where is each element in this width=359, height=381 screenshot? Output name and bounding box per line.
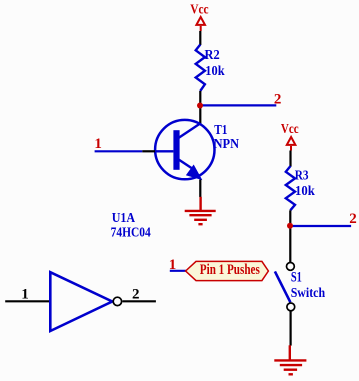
node junction right — [287, 223, 293, 229]
svg-text:1: 1 — [94, 136, 102, 152]
svg-text:Pin 1 Pushes: Pin 1 Pushes — [200, 262, 260, 278]
transistor T1 — [142, 120, 214, 179]
wire net 1 (transistor base) — [95, 150, 143, 152]
ground under transistor — [185, 197, 216, 224]
ground under switch — [274, 345, 306, 374]
svg-text:T1: T1 — [214, 123, 227, 138]
power Vcc left symbol — [196, 17, 205, 31]
svg-text:2: 2 — [132, 286, 140, 302]
svg-text:2: 2 — [349, 211, 357, 227]
svg-text:1: 1 — [169, 257, 177, 273]
svg-text:10k: 10k — [205, 64, 224, 79]
svg-text:1: 1 — [21, 286, 29, 302]
inverter U1A (74HC04 gate) — [50, 272, 121, 331]
svg-text:Switch: Switch — [291, 286, 326, 301]
svg-text:2: 2 — [274, 91, 282, 107]
wire Vcc to R2 — [199, 31, 201, 45]
svg-text:74HC04: 74HC04 — [111, 226, 151, 241]
port Pin 1 Pushes — [186, 261, 269, 280]
inverter U1A input wire — [5, 300, 50, 302]
wire Vcc to R3 — [289, 151, 291, 167]
svg-text:Vcc: Vcc — [281, 122, 299, 137]
svg-text:NPN: NPN — [214, 137, 239, 152]
inverter U1A output wire — [123, 300, 156, 302]
switch S1 — [275, 263, 295, 311]
wire switch to ground — [290, 311, 292, 346]
svg-text:U1A: U1A — [112, 211, 136, 226]
power Vcc right symbol — [287, 137, 296, 151]
svg-text:R3: R3 — [295, 168, 309, 183]
wire R2 to transistor collector — [199, 91, 201, 124]
wire emitter to ground — [199, 180, 201, 198]
svg-text:S1: S1 — [291, 270, 302, 286]
resistor R2 — [196, 45, 205, 92]
svg-text:10k: 10k — [295, 184, 315, 199]
svg-text:Vcc: Vcc — [190, 3, 208, 18]
wire net 2 (top) — [200, 104, 276, 106]
wire net 1 (to port) — [170, 270, 186, 272]
resistor R3 — [286, 166, 295, 210]
node junction left — [197, 103, 203, 109]
wire net 2 (right) — [290, 225, 351, 227]
svg-text:R2: R2 — [205, 48, 220, 63]
wire R3 to switch — [289, 210, 291, 262]
